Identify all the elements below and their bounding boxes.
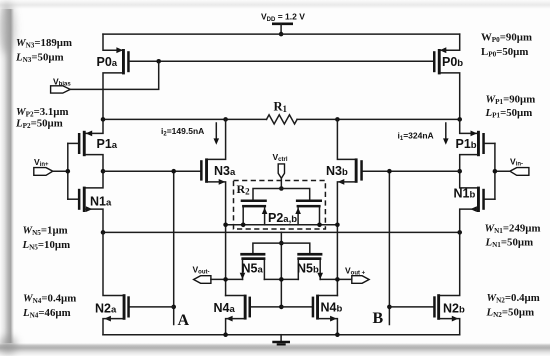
svg-text:N3b: N3b [326, 164, 348, 178]
node A top tee [171, 169, 176, 174]
node R1 left tap [223, 117, 228, 122]
wire N2a source to ground [103, 319, 123, 335]
node Vin+ gate tee [66, 169, 71, 174]
svg-text:B: B [373, 310, 384, 327]
svg-text:WN4=0.4µm: WN4=0.4µm [23, 293, 76, 306]
wire N1b source down to long line [460, 209, 478, 232]
label current i1 [398, 123, 449, 145]
transistor N1a [78, 187, 112, 212]
wire node B column [388, 171, 390, 324]
svg-text:i2=149.5nA: i2=149.5nA [161, 126, 204, 138]
wire N4b gate [281, 306, 312, 308]
svg-text:LN3=50µm: LN3=50µm [15, 52, 64, 65]
transistor N5b [297, 253, 323, 280]
node long line right [457, 230, 462, 235]
svg-text:N1a: N1a [90, 195, 112, 209]
svg-text:LP1=50µm: LP1=50µm [485, 107, 533, 120]
svg-text:N1b: N1b [454, 187, 476, 201]
node long line left [101, 230, 106, 235]
Vin- input connector [510, 157, 529, 176]
wire P0b drain down to i1 line [441, 73, 460, 120]
wire right stage output to N3b gate [363, 170, 460, 172]
svg-text:P0b: P0b [442, 55, 463, 69]
svg-text:WN2=0.4µm: WN2=0.4µm [487, 292, 540, 305]
wire Vctrl down to P2 gates [280, 178, 282, 188]
node right column / i1 line [457, 117, 462, 122]
wire N5b gate [281, 243, 309, 253]
svg-text:LN2=50µm: LN2=50µm [486, 307, 535, 320]
wire P1a drain down to node [85, 155, 103, 172]
wire long bias line [103, 231, 460, 233]
wire node A column [173, 171, 175, 324]
wire N4a gate [251, 306, 282, 308]
label current i2 [161, 123, 219, 145]
label WP0/LP0 [481, 32, 532, 59]
wire N2b source to ground [440, 319, 460, 335]
ground symbol [272, 335, 290, 345]
wire left stage output to N3a gate [103, 170, 200, 172]
svg-text:WN3=189µm: WN3=189µm [16, 37, 72, 50]
node tail left [223, 223, 228, 228]
svg-text:LN1=50µm: LN1=50µm [485, 237, 534, 250]
svg-text:LP0=50µm: LP0=50µm [481, 46, 528, 59]
Vctrl connector [273, 152, 288, 178]
wire ground rail [103, 334, 460, 336]
svg-text:WN5=1µm: WN5=1µm [23, 225, 68, 238]
svg-text:N2a: N2a [95, 301, 117, 315]
wire N2b drain up to long line [440, 232, 460, 295]
node P2a leg [241, 223, 246, 228]
wire Vbias to gate junction [70, 61, 159, 89]
wire P1b drain down to node [460, 155, 478, 172]
svg-text:N5a: N5a [242, 262, 264, 276]
node Vin- gate tee [493, 169, 498, 174]
wire P2a gate [253, 189, 281, 200]
node B top tee [387, 169, 392, 174]
svg-text:i1=324nA: i1=324nA [398, 131, 434, 143]
node N4a source ground tap [223, 332, 228, 337]
node R1 right tap [335, 117, 340, 122]
wire N2a drain up to long line [103, 232, 123, 295]
Vout- connector [193, 264, 211, 283]
wire right column P0b source to rail [444, 34, 460, 50]
Vbias input connector [51, 77, 72, 94]
svg-text:LP2=50µm: LP2=50µm [15, 118, 63, 131]
wire N1b gate stub [485, 198, 495, 200]
svg-text:P2a,b: P2a,b [268, 211, 297, 225]
svg-text:WP0=90µm: WP0=90µm [481, 32, 532, 45]
node tail right [335, 223, 340, 228]
svg-text:P0a: P0a [97, 55, 118, 69]
node P2b leg [317, 223, 322, 228]
transistor N1b [454, 187, 485, 213]
resistor box R2 (dashed) [234, 181, 326, 230]
wire N3a source down [208, 182, 226, 296]
wire Vout+ line [320, 278, 352, 280]
wire N4a drain up to Vout- node [226, 295, 244, 297]
node N4b source ground tap [335, 332, 340, 337]
wire input gate vertical (right) [494, 143, 496, 199]
svg-text:N4a: N4a [214, 301, 236, 315]
wire N1a gate stub [68, 198, 78, 200]
transistor P0b [433, 47, 463, 74]
wire i2/i1 line right segment [297, 118, 460, 120]
wire N1b drain up to node [460, 171, 478, 188]
transistor N4b [312, 295, 343, 322]
label WN3/LN3 [15, 37, 72, 64]
node Vout- tee [223, 277, 228, 282]
wire P1a source up [85, 119, 103, 133]
wire N3b drain to R1 tap [337, 119, 355, 159]
label WN4/LN4 [22, 293, 76, 320]
wire N4b source to ground [319, 319, 337, 335]
wire N3b source down [337, 182, 355, 296]
transistor N5a [240, 253, 266, 280]
resistor R1 [267, 100, 298, 125]
Vout+ connector [345, 266, 369, 284]
svg-text:WP1=90µm: WP1=90µm [486, 94, 536, 107]
wire VDD rail [103, 33, 460, 35]
svg-text:P1b: P1b [456, 137, 477, 151]
node Vout+ tee [335, 277, 340, 282]
label WN2/LN2 [486, 292, 540, 319]
label WN1/LN1 [485, 223, 541, 250]
wire P1b source up [460, 119, 478, 133]
wire N3a drain to R1 tap [208, 119, 226, 159]
wire P1b gate stub [485, 142, 495, 144]
wire i2/i1 line left segment [103, 118, 267, 120]
node B gate tap [387, 305, 392, 310]
wire N2b gate [389, 306, 433, 308]
wire N1a source down to long line [85, 209, 103, 232]
node VDD junction [279, 32, 284, 37]
transistor N2a [95, 294, 130, 321]
svg-text:LN5=10µm: LN5=10µm [22, 239, 71, 252]
wire P0a/P0b gate line [130, 60, 433, 62]
VDD supply symbol [261, 12, 305, 35]
transistor P1a [78, 131, 118, 157]
wire center column [280, 232, 282, 307]
transistor N3a [200, 158, 236, 184]
wire tail line (N3 sources / P2) [226, 224, 338, 226]
label WP1/LP1 [485, 94, 536, 120]
wire Vin+ to gates [53, 170, 68, 172]
transistor N4a [214, 295, 252, 322]
svg-text:LN4=46µm: LN4=46µm [22, 307, 71, 320]
wire P1a gate stub [68, 142, 78, 144]
wire Vout- line [211, 278, 243, 280]
transistor P2a [241, 200, 268, 225]
svg-text:N2b: N2b [443, 301, 465, 315]
node left column / i2 line [101, 117, 106, 122]
wire left column P0a source to rail [103, 34, 119, 50]
node right stage output [457, 169, 462, 174]
wire N1a drain up to node [85, 171, 103, 188]
node N5 drains / N4 gates column [279, 277, 284, 282]
wire P0a drain down to i2 line [103, 73, 122, 120]
wire P2b gate [281, 189, 309, 200]
transistor P2b [295, 200, 322, 225]
wire N2a gate [130, 306, 174, 308]
svg-text:N4b: N4b [321, 301, 343, 315]
wire input gate vertical (left) [67, 143, 69, 199]
node N5 gate tee [279, 241, 284, 246]
transistor P1b [456, 131, 485, 157]
svg-text:A: A [178, 312, 190, 329]
node P2 gate tee [279, 186, 284, 191]
transistor P0a [97, 47, 130, 74]
Vin+ input connector [34, 157, 53, 175]
node N4 gates tee [279, 305, 284, 310]
transistor N2b [433, 294, 465, 321]
node left stage output [101, 169, 106, 174]
transistor N3b [326, 158, 363, 184]
svg-text:N5b: N5b [297, 262, 319, 276]
svg-text:N3a: N3a [214, 164, 236, 178]
wire N5a gate [253, 243, 281, 253]
wire N4b drain up to Vout+ node [319, 295, 337, 297]
node A gate tap [171, 305, 176, 310]
wire Vin- to gates [495, 170, 510, 172]
svg-text:WN1=249µm: WN1=249µm [485, 223, 541, 236]
wire N5 drains mid segment [264, 278, 298, 280]
label WP2/LP2 [15, 106, 68, 130]
label WN5/LN5 [22, 225, 71, 252]
node gate/Vbias junction [156, 59, 161, 64]
svg-text:P1a: P1a [97, 137, 118, 151]
wire N4a source to ground [226, 319, 244, 335]
